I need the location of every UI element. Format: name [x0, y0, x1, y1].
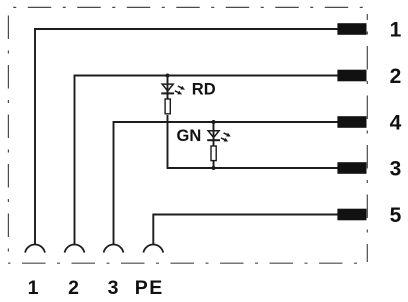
svg-text:3: 3	[390, 158, 402, 181]
svg-text:2: 2	[68, 277, 79, 299]
svg-text:3: 3	[108, 277, 119, 299]
svg-text:4: 4	[390, 112, 402, 135]
svg-text:GN: GN	[177, 127, 202, 145]
svg-text:5: 5	[390, 204, 402, 227]
svg-text:1: 1	[390, 19, 402, 42]
svg-text:PE: PE	[135, 277, 164, 299]
svg-text:2: 2	[390, 65, 402, 88]
svg-text:1: 1	[28, 277, 39, 299]
svg-text:RD: RD	[192, 81, 216, 99]
